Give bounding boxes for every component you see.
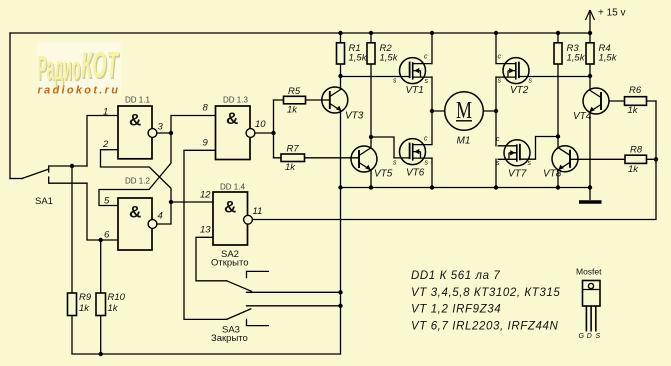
node ground rail R10 [99, 352, 103, 356]
wire VT7 source to bottom bus [495, 159, 497, 187]
svg-text:VT 3,4,5,8 КТ3102, КТ315: VT 3,4,5,8 КТ3102, КТ315 [411, 287, 560, 299]
resistor R7 1k [281, 144, 305, 174]
wire DD1.4 pin 13 riser to SA2 [196, 237, 227, 280]
wire VT2 source to motor [495, 77, 497, 111]
svg-text:radiokot.ru: radiokot.ru [38, 85, 121, 97]
wire VT8 collector [557, 137, 559, 148]
svg-text:1,5k: 1,5k [380, 53, 399, 64]
wire VT8 emitter [557, 170, 559, 188]
wire VT1 drain [431, 33, 433, 64]
resistor R6 1k [625, 85, 647, 116]
switch SA2 arm [227, 281, 252, 292]
wire lower contact to DD1.2 pin 6 [87, 183, 118, 240]
transistor VT5 [351, 146, 377, 172]
node DD1.1 out [169, 131, 173, 135]
svg-text:VT8: VT8 [543, 169, 562, 180]
wire VT5 emitter [370, 170, 372, 188]
node motor left [430, 109, 434, 113]
svg-text:DD 1.2: DD 1.2 [125, 177, 150, 186]
svg-text:R9: R9 [79, 292, 92, 303]
wire SA1 pole lead [10, 178, 22, 180]
wire node B to DD1.4 pin 12 [171, 201, 213, 203]
node SA1 R9 [70, 164, 74, 168]
wire +15v riser [589, 11, 591, 33]
op-amp DD1.3 gate [216, 106, 255, 160]
wire VT5 collector [370, 137, 372, 148]
wire VT3 emitter to bottom bus [340, 111, 342, 188]
svg-text:S: S [596, 333, 601, 340]
svg-text:1k: 1k [79, 303, 90, 314]
resistor R1 [337, 43, 368, 64]
svg-text:Открыто: Открыто [211, 258, 249, 269]
svg-text:s: s [529, 78, 533, 85]
switch SA3 open contact [247, 319, 269, 325]
wire VT2 drain [495, 33, 497, 64]
wire DD1.4 output pin 11 to right riser [252, 101, 656, 220]
svg-text:VT5: VT5 [374, 169, 393, 180]
svg-text:3: 3 [158, 122, 164, 133]
svg-text:11: 11 [253, 206, 263, 217]
wire DD1.3 output lead [255, 132, 274, 134]
wire R4 column [589, 33, 591, 76]
svg-text:12: 12 [200, 190, 211, 201]
svg-text:КОТ: КОТ [81, 46, 119, 86]
wire R2 column [370, 33, 372, 137]
logo patch [37, 43, 121, 95]
resistor R2 [367, 43, 399, 64]
switch SA1 lower contact [49, 177, 87, 183]
node bottom VT3 [338, 185, 342, 189]
svg-text:8: 8 [203, 103, 209, 114]
node bottom VT6 [430, 185, 434, 189]
wire VT3 collector [340, 76, 342, 89]
svg-text:VT 1,2 IRF9Z34: VT 1,2 IRF9Z34 [411, 304, 501, 316]
svg-text:c: c [496, 136, 500, 143]
node bus R4 [588, 31, 592, 35]
svg-text:+ 15 v: + 15 v [598, 8, 626, 19]
transistor VT3 [322, 87, 348, 113]
svg-text:&: & [224, 198, 236, 217]
wire R1 column [340, 33, 342, 76]
svg-text:DD1 К 561 ла 7: DD1 К 561 ла 7 [411, 270, 500, 282]
node bottom VT5 [369, 185, 373, 189]
wire R3 column [557, 33, 559, 137]
svg-text:1k: 1k [628, 105, 639, 116]
node bus R2 [369, 31, 373, 35]
switch SA2 open contact [247, 271, 269, 277]
svg-text:&: & [226, 109, 238, 128]
node SA3 ground [338, 304, 342, 308]
transistor VT7 [498, 140, 531, 166]
svg-text:DD 1.3: DD 1.3 [223, 96, 248, 105]
svg-text:Mosfet: Mosfet [576, 267, 602, 277]
wire DD1.1 pin 2 cross link [101, 150, 172, 202]
wire ground riser [340, 188, 342, 355]
wire R7 leads [274, 157, 360, 159]
node motor right [494, 109, 498, 113]
svg-text:VT1: VT1 [406, 85, 424, 96]
transistor VT2 [497, 58, 530, 84]
node bus R3 [556, 31, 560, 35]
op-amp DD1.4 gate [213, 192, 252, 245]
svg-text:c: c [424, 54, 428, 61]
svg-text:Радио: Радио [38, 48, 81, 87]
motor M1 [445, 92, 484, 131]
svg-text:1,5k: 1,5k [567, 53, 586, 64]
svg-text:4: 4 [158, 211, 163, 222]
svg-text:1k: 1k [287, 105, 298, 116]
node DD1.2 out [169, 200, 173, 204]
svg-text:1,5k: 1,5k [349, 53, 368, 64]
wire R9 bottom to ground rail [72, 316, 341, 355]
svg-text:13: 13 [200, 225, 211, 236]
node DD1.3 out [271, 131, 275, 135]
node SA2 ground [338, 290, 342, 294]
svg-text:1,5k: 1,5k [599, 53, 618, 64]
svg-text:M: M [456, 97, 472, 124]
logo Радио text [38, 48, 82, 89]
wire VT4 collector [589, 76, 591, 90]
svg-text:DD 1.1: DD 1.1 [125, 96, 150, 105]
wire top +15V bus [10, 32, 590, 34]
op-amp DD1.2 gate [118, 198, 157, 250]
node VT2 gate [588, 74, 592, 78]
wire SA3 pole to ground riser [247, 305, 341, 307]
transistor VT4 [583, 88, 609, 114]
svg-text:VT4: VT4 [573, 111, 592, 122]
svg-text:M1: M1 [457, 136, 471, 147]
node DD1.2 pin6 R10 [99, 238, 103, 242]
svg-text:&: & [129, 203, 141, 222]
Mosfet package drawing [576, 267, 602, 341]
wire VT7 gate route [520, 137, 558, 160]
wire R10 bottom [100, 316, 102, 355]
svg-text:s: s [425, 160, 429, 167]
node bus VT1 [430, 31, 434, 35]
wire VT6 gate route [371, 137, 410, 158]
svg-text:1k: 1k [628, 164, 639, 175]
wire R6 leads [610, 100, 657, 102]
svg-text:2: 2 [102, 139, 109, 150]
wire VT1 source to motor [431, 77, 433, 111]
svg-text:Закрыто: Закрыто [211, 333, 248, 344]
svg-text:1k: 1k [108, 303, 119, 314]
svg-text:1k: 1k [285, 162, 296, 173]
wire SA2 pole to ground riser [247, 291, 341, 293]
svg-text:c: c [424, 136, 428, 143]
wire VT4 emitter to bottom bus [589, 112, 591, 188]
logo КОТ text [81, 46, 120, 88]
node bus VT2 [494, 31, 498, 35]
svg-text:R8: R8 [630, 145, 643, 156]
svg-text:G: G [579, 333, 585, 340]
wire R8 leads [571, 158, 656, 160]
svg-text:R10: R10 [108, 292, 126, 303]
resistor R4 [586, 43, 618, 64]
svg-text:SA1: SA1 [35, 196, 53, 207]
svg-text:D: D [587, 333, 592, 340]
svg-text:R5: R5 [288, 86, 301, 97]
svg-text:VT6: VT6 [406, 168, 425, 179]
wire R9 drop [71, 166, 73, 293]
svg-text:VT 6,7 IRL2203, IRFZ44N: VT 6,7 IRL2203, IRFZ44N [411, 321, 558, 333]
resistor R10 1k [96, 292, 126, 316]
node VT1 gate [338, 74, 342, 78]
svg-text:R7: R7 [287, 144, 300, 155]
node VT6 gate [369, 135, 373, 139]
svg-text:VT7: VT7 [508, 169, 527, 180]
switch SA3 arm [227, 309, 251, 320]
svg-text:6: 6 [104, 230, 110, 241]
svg-text:1: 1 [103, 107, 108, 118]
svg-text:DD 1.4: DD 1.4 [220, 183, 245, 192]
wire R5 leads [274, 99, 330, 101]
wire node A riser to DD1.1 pin 1 [87, 116, 118, 167]
wire motor leads [432, 110, 496, 112]
switch SA1 arm [22, 169, 48, 178]
svg-text:&: & [129, 111, 141, 130]
op-amp DD1.1 gate [118, 106, 157, 159]
node R8 riser [654, 157, 658, 161]
wire VT7 drain [495, 111, 497, 146]
node bottom VT7 [494, 185, 498, 189]
node bottom VT4 [588, 185, 592, 189]
wire VT6 source to bottom bus [431, 158, 433, 188]
svg-text:s: s [498, 78, 502, 85]
wire DD1.2 output riser [157, 202, 171, 224]
svg-text:R6: R6 [629, 85, 642, 96]
wire VT2 gate to R4 node [519, 76, 590, 78]
svg-text:s: s [393, 160, 397, 167]
svg-text:10: 10 [255, 119, 266, 130]
resistor R8 1k [625, 145, 647, 176]
node bus R1 [338, 31, 342, 35]
svg-text:c: c [498, 54, 502, 61]
wire VT6 drain [431, 111, 433, 145]
transistor VT1 [400, 58, 433, 84]
switch SA1 upper contact [49, 166, 87, 172]
ground [579, 188, 602, 203]
wire DD1.3 pin 9 riser to SA3 [184, 150, 227, 319]
power +15v arrow [586, 10, 595, 20]
wire VT1 gate from R1 node [341, 76, 410, 78]
wire VT3 base lead [328, 99, 331, 101]
resistor R9 1k [68, 292, 92, 316]
wire bottom bus [341, 187, 591, 189]
node bottom VT8 [556, 185, 560, 189]
svg-text:s: s [528, 160, 532, 167]
node VT7 gate [556, 134, 560, 138]
svg-text:s: s [393, 78, 397, 85]
transistor VT6 [400, 139, 433, 165]
svg-text:5: 5 [104, 196, 110, 207]
wire DD1.1 output cross link to DD1.2 pin 5 [99, 133, 171, 206]
resistor R5 1k [284, 86, 306, 116]
svg-text:VT3: VT3 [345, 111, 364, 122]
resistor R3 [554, 43, 586, 64]
wire DD1.1 output to DD1.3 pin 8 [157, 116, 216, 134]
svg-text:s: s [425, 78, 429, 85]
svg-text:9: 9 [203, 138, 209, 149]
wire R5 R7 riser [273, 100, 275, 158]
wire left border down to SA1 [9, 33, 11, 179]
svg-text:VT2: VT2 [510, 85, 529, 96]
transistor VT8 [552, 146, 578, 172]
svg-text:s: s [496, 160, 500, 167]
wire R10 drop [100, 240, 102, 293]
